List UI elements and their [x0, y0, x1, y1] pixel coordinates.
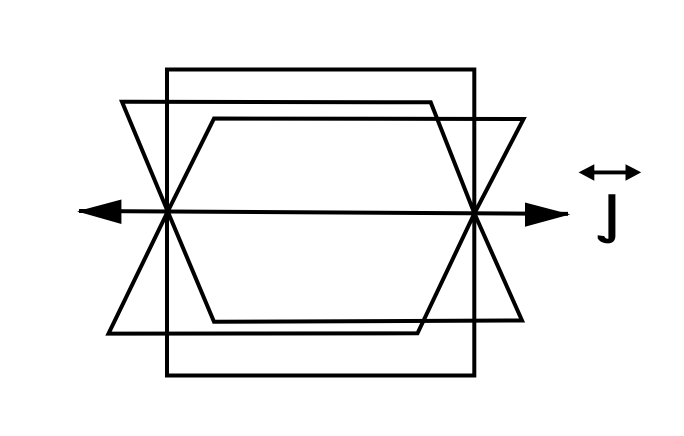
label J	[598, 194, 616, 243]
left arrowhead	[77, 200, 121, 225]
parallelogram B (sheared left)	[109, 119, 524, 334]
outer rectangle (unsheared cell)	[167, 70, 474, 376]
small arrow left head	[579, 164, 595, 181]
small arrow right head	[626, 164, 642, 181]
small double arrow shaft	[592, 170, 628, 174]
parallelogram A (sheared right)	[122, 102, 522, 322]
main axis shaft	[79, 211, 568, 214]
right arrowhead	[525, 203, 570, 227]
